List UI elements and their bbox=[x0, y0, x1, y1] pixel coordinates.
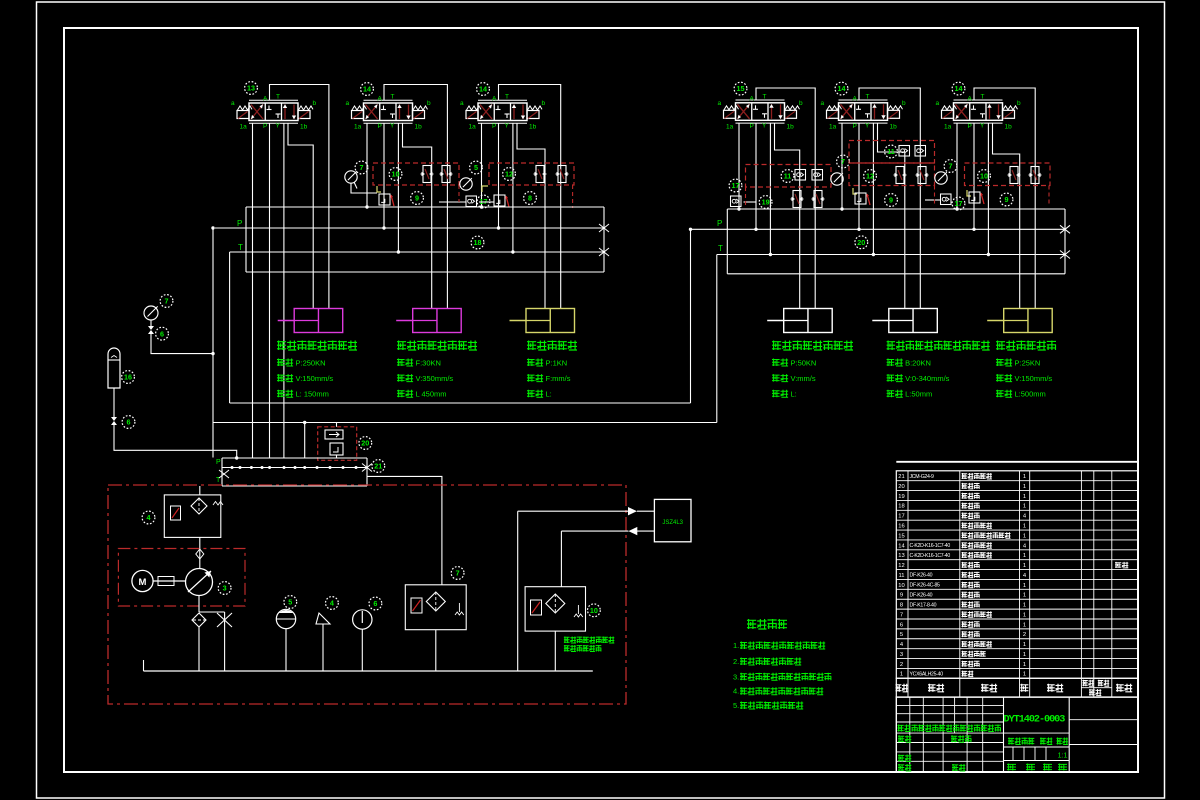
riser right P down bbox=[690, 229, 692, 403]
balloon callout 10 bbox=[588, 604, 601, 617]
balloon callout 15 bbox=[734, 82, 747, 95]
balloon callout 5 bbox=[470, 161, 483, 174]
cylinder caption row bbox=[996, 374, 1012, 382]
svg-text:P:50KN: P:50KN bbox=[791, 359, 817, 368]
balloon callout 14 bbox=[835, 82, 848, 95]
svg-text:11: 11 bbox=[898, 573, 904, 579]
svg-text:Y: Y bbox=[505, 123, 510, 130]
svg-text:A: A bbox=[263, 96, 268, 103]
solenoid directional valve 15 bbox=[718, 93, 804, 130]
wire pair right bbox=[925, 199, 941, 201]
svg-text:JSZ4L3: JSZ4L3 bbox=[662, 520, 683, 526]
svg-text:V:mm/s: V:mm/s bbox=[791, 374, 816, 383]
sheet row bbox=[1007, 764, 1016, 771]
left bus end connector bbox=[603, 207, 605, 272]
title block bbox=[896, 697, 1138, 772]
wire loop valve 3 A-port to cylinder bbox=[499, 85, 561, 309]
svg-text:V:150mm/s: V:150mm/s bbox=[296, 374, 334, 383]
svg-text:4: 4 bbox=[147, 513, 151, 522]
svg-text:1a: 1a bbox=[354, 124, 362, 131]
svg-text:Y: Y bbox=[980, 122, 985, 129]
svg-text:1a: 1a bbox=[240, 124, 248, 131]
flow manifold block 12 right bbox=[849, 163, 935, 186]
left bus line T bbox=[230, 251, 604, 253]
svg-text:P:1KN: P:1KN bbox=[546, 359, 568, 368]
balloon callout 12 bbox=[503, 168, 516, 181]
svg-text:11: 11 bbox=[887, 147, 895, 156]
svg-text:L:50mm: L:50mm bbox=[905, 390, 932, 399]
svg-text:a: a bbox=[346, 100, 350, 107]
pipeline break mark bbox=[1060, 251, 1070, 259]
svg-text:1a: 1a bbox=[944, 123, 952, 130]
svg-text:2: 2 bbox=[1023, 632, 1026, 638]
svg-text:10: 10 bbox=[590, 606, 598, 615]
svg-text:11: 11 bbox=[784, 172, 792, 181]
svg-text:3: 3 bbox=[900, 652, 903, 658]
right bus end connector bbox=[1064, 209, 1066, 274]
svg-text:L:: L: bbox=[791, 390, 797, 399]
solenoid directional valve 14 bbox=[936, 93, 1022, 130]
return filter unit 2 bbox=[525, 587, 585, 631]
balloon callout 4 bbox=[142, 511, 155, 524]
svg-text:V:0-340mm/s: V:0-340mm/s bbox=[905, 374, 950, 383]
svg-text:a: a bbox=[936, 100, 940, 107]
svg-text:Y: Y bbox=[390, 123, 395, 130]
revision header green text bbox=[898, 725, 1001, 732]
cylinder caption row bbox=[996, 390, 1012, 398]
svg-text:1: 1 bbox=[900, 672, 903, 678]
balloon callout 17 bbox=[729, 179, 742, 192]
balloon callout 19 bbox=[759, 196, 772, 209]
wire valve 6 B-port to cylinder bbox=[993, 123, 1020, 308]
svg-text:1a: 1a bbox=[726, 123, 734, 130]
svg-text:T: T bbox=[238, 243, 243, 252]
svg-text:1: 1 bbox=[1023, 474, 1026, 480]
wire valve 2 ports to bus bbox=[366, 123, 368, 207]
svg-text:1: 1 bbox=[1023, 484, 1026, 490]
wire gauge to block bbox=[351, 184, 377, 194]
pressure gauge left bbox=[144, 306, 158, 320]
balloon callout 6 bbox=[369, 597, 382, 610]
svg-text:1: 1 bbox=[1023, 583, 1026, 589]
cylinder 4 work clamp bbox=[784, 309, 833, 333]
variable pump bbox=[186, 569, 213, 596]
svg-text:L:: L: bbox=[546, 390, 552, 399]
svg-text:3: 3 bbox=[223, 584, 227, 593]
cylinder caption row bbox=[527, 374, 543, 382]
svg-text:L:500mm: L:500mm bbox=[1015, 390, 1046, 399]
parts header row bbox=[896, 678, 1138, 697]
svg-text:a: a bbox=[460, 100, 464, 107]
svg-text:T: T bbox=[981, 93, 985, 100]
svg-text:8: 8 bbox=[528, 194, 532, 203]
svg-text:1b: 1b bbox=[787, 123, 795, 130]
wire loop valve 1 A-port to cylinder bbox=[270, 85, 329, 309]
pilot relief valve block 20 bbox=[318, 427, 357, 461]
svg-text:JCM-G24-9: JCM-G24-9 bbox=[910, 474, 935, 480]
svg-text:20: 20 bbox=[857, 238, 865, 247]
cylinder caption title bbox=[887, 341, 990, 351]
svg-text:1a: 1a bbox=[829, 123, 837, 130]
svg-text:1b: 1b bbox=[890, 123, 898, 130]
wire valve 4 ports to bus bbox=[738, 123, 740, 209]
svg-text:7: 7 bbox=[949, 162, 953, 171]
svg-text:A: A bbox=[750, 95, 755, 102]
cross line 2 bbox=[213, 422, 717, 424]
svg-text:2: 2 bbox=[900, 662, 903, 668]
check manifold block 11 upper bbox=[849, 141, 935, 164]
svg-text:DYT1402-0003: DYT1402-0003 bbox=[1004, 715, 1066, 726]
right bus line P bbox=[691, 228, 1066, 230]
svg-text:5: 5 bbox=[474, 163, 478, 172]
balloon callout 7 bbox=[837, 155, 850, 168]
cylinder caption title bbox=[277, 341, 357, 351]
balloon callout 10 bbox=[978, 170, 991, 183]
svg-text:F:30KN: F:30KN bbox=[416, 359, 441, 368]
svg-text:A: A bbox=[492, 96, 497, 103]
svg-text:A: A bbox=[968, 95, 973, 102]
wire valve 5 ports to bus bbox=[841, 123, 843, 209]
svg-text:L 450mm: L 450mm bbox=[416, 390, 447, 399]
right bus line 4 bbox=[727, 273, 1065, 275]
svg-text:Y: Y bbox=[276, 123, 281, 130]
balloon callout 9 bbox=[885, 194, 898, 207]
svg-text:P:250KN: P:250KN bbox=[296, 359, 326, 368]
svg-text:19: 19 bbox=[762, 198, 770, 207]
svg-text:b: b bbox=[799, 100, 803, 107]
cylinder 3 die change (yellow) bbox=[526, 309, 575, 333]
cylinder caption title bbox=[527, 341, 577, 351]
cylinder 6 table feed (yellow) bbox=[1004, 309, 1052, 333]
terminal box JSZ4L3 bbox=[654, 499, 691, 541]
svg-text:T: T bbox=[391, 94, 395, 101]
wire valve 3 ports to bus bbox=[481, 123, 483, 207]
pipeline break mark bbox=[599, 248, 609, 256]
bus left end verticals bbox=[245, 207, 247, 272]
svg-text:15: 15 bbox=[737, 84, 745, 93]
svg-text:L: 150mm: L: 150mm bbox=[296, 390, 329, 399]
svg-text:6: 6 bbox=[900, 622, 903, 628]
pipeline break mark bbox=[599, 224, 609, 232]
solenoid directional valve 14 bbox=[821, 93, 907, 130]
header labels bbox=[896, 684, 908, 692]
svg-text:20: 20 bbox=[898, 484, 904, 490]
svg-text:21: 21 bbox=[898, 474, 904, 480]
svg-text:1b: 1b bbox=[300, 124, 308, 131]
pressure filter unit 4 bbox=[164, 495, 221, 538]
right bus line 1 bbox=[727, 208, 1065, 210]
flow manifold block 10 right bbox=[965, 163, 1051, 186]
svg-text:P:25KN: P:25KN bbox=[1015, 359, 1041, 368]
solenoid directional valve 14 bbox=[346, 94, 432, 131]
svg-text:1a: 1a bbox=[469, 124, 477, 131]
wire valve 2 B-port to cylinder bbox=[403, 123, 432, 308]
svg-text:A: A bbox=[378, 96, 383, 103]
parts list table bbox=[896, 461, 1138, 463]
accumulator bbox=[108, 348, 120, 388]
svg-text:4.: 4. bbox=[733, 687, 739, 696]
balloon callout 17 bbox=[952, 197, 965, 210]
svg-text:1: 1 bbox=[1023, 563, 1026, 569]
svg-text:P: P bbox=[263, 123, 267, 130]
risers to manifold bbox=[304, 423, 306, 458]
cylinder 2 positioning (magenta) bbox=[413, 309, 462, 333]
svg-text:a: a bbox=[718, 100, 722, 107]
flow control manifold block 12 bbox=[489, 163, 574, 185]
svg-text:1: 1 bbox=[1023, 603, 1026, 609]
wire valve 3 B-port to cylinder bbox=[517, 123, 545, 308]
svg-text:C-K2D-K16-1C7-40: C-K2D-K16-1C7-40 bbox=[910, 543, 951, 549]
pump suction branch bbox=[198, 596, 200, 613]
air breather bbox=[316, 613, 330, 624]
svg-text:5.: 5. bbox=[733, 701, 739, 710]
solenoid directional valve 13 bbox=[231, 94, 317, 131]
svg-text:b: b bbox=[902, 100, 906, 107]
shutoff valve under gauge bbox=[150, 320, 152, 326]
balloon callout 7 bbox=[160, 295, 173, 308]
balloon callout 14 bbox=[952, 82, 965, 95]
svg-text:1b: 1b bbox=[1005, 123, 1013, 130]
svg-text:T: T bbox=[276, 94, 280, 101]
svg-text:19: 19 bbox=[898, 494, 904, 500]
balloon callout 20 bbox=[359, 437, 372, 450]
svg-text:1: 1 bbox=[1023, 672, 1026, 678]
balloon callout 7 bbox=[355, 161, 368, 174]
balloon callout 6 bbox=[122, 416, 135, 429]
balloon callout 21 bbox=[372, 460, 385, 473]
cylinder caption title bbox=[772, 341, 853, 351]
svg-text:1: 1 bbox=[1023, 494, 1026, 500]
manifold block A with 11 bbox=[746, 165, 832, 188]
title block labels bbox=[898, 735, 911, 742]
technical requirements title bbox=[747, 619, 787, 629]
svg-text:9: 9 bbox=[889, 196, 893, 205]
pressure gauge under valve 3 bbox=[460, 178, 472, 190]
motor-pump group box bbox=[118, 549, 245, 607]
cylinder caption title bbox=[996, 341, 1056, 351]
svg-text:a: a bbox=[821, 100, 825, 107]
balloon callout 6 bbox=[156, 327, 169, 340]
svg-text:4: 4 bbox=[330, 599, 334, 608]
svg-text:6: 6 bbox=[160, 329, 164, 338]
svg-text:1.: 1. bbox=[733, 641, 739, 650]
cylinder caption row bbox=[772, 359, 788, 367]
svg-text:14: 14 bbox=[363, 85, 371, 94]
svg-text:P: P bbox=[237, 219, 242, 228]
svg-text:F:mm/s: F:mm/s bbox=[546, 374, 571, 383]
svg-text:2.: 2. bbox=[733, 657, 739, 666]
svg-text:3.: 3. bbox=[733, 672, 739, 681]
cylinder 1 work (magenta) bbox=[294, 309, 343, 333]
hydraulic power unit enclosure bbox=[108, 485, 626, 704]
svg-text:1b: 1b bbox=[529, 124, 537, 131]
balloon callout 4 bbox=[326, 597, 339, 610]
right column cells bbox=[1069, 719, 1138, 721]
cylinder caption row bbox=[996, 359, 1012, 367]
pipeline break mark bbox=[219, 470, 229, 478]
stage mark row bbox=[1004, 732, 1070, 734]
svg-text:15: 15 bbox=[898, 533, 904, 539]
svg-text:V:350mm/s: V:350mm/s bbox=[416, 374, 454, 383]
wire loop valve 4 A-port to cylinder bbox=[756, 88, 815, 309]
cylinder 5 feed clamp bbox=[889, 309, 938, 333]
svg-text:P: P bbox=[750, 123, 754, 130]
cylinder caption row bbox=[527, 390, 543, 398]
balloon callout 11 bbox=[885, 145, 898, 158]
left bus line P bbox=[215, 227, 604, 229]
svg-text:1: 1 bbox=[1023, 524, 1026, 530]
svg-text:V:150mm/s: V:150mm/s bbox=[1015, 374, 1053, 383]
svg-text:1: 1 bbox=[1023, 504, 1026, 510]
right bus line T bbox=[717, 254, 1065, 256]
svg-text:13: 13 bbox=[247, 84, 255, 93]
cylinder caption row bbox=[887, 359, 903, 367]
balloon callout 7 bbox=[944, 160, 957, 173]
note text near filter 2 bbox=[564, 637, 614, 644]
pressure gauge under valve 2 bbox=[345, 171, 357, 183]
balloon callout 16 bbox=[122, 371, 135, 384]
wire valve 1 B-port to cylinder bbox=[288, 123, 313, 308]
cylinder caption row bbox=[887, 390, 903, 398]
svg-text:P: P bbox=[492, 123, 496, 130]
balloon callout 14 bbox=[361, 83, 374, 96]
manifold T to return filter bbox=[367, 476, 442, 584]
balloon callout 5 bbox=[284, 596, 297, 609]
svg-text:DF-K17-8-40: DF-K17-8-40 bbox=[910, 602, 937, 608]
cylinder caption row bbox=[397, 390, 413, 398]
check valve pair under block 12 bbox=[466, 196, 477, 207]
svg-text:Y: Y bbox=[762, 122, 767, 129]
svg-text:DF-K26-40: DF-K26-40 bbox=[910, 592, 933, 598]
pipeline break mark bbox=[362, 464, 372, 472]
svg-text:b: b bbox=[427, 100, 431, 107]
svg-text:1: 1 bbox=[1023, 652, 1026, 658]
cylinder caption row bbox=[772, 374, 788, 382]
svg-text:9: 9 bbox=[900, 593, 903, 599]
balloon callout 3 bbox=[218, 582, 231, 595]
cylinder caption row bbox=[887, 374, 903, 382]
pressure gauge right 2 bbox=[935, 172, 947, 184]
shutoff valve under accumulator bbox=[113, 388, 115, 417]
coupling bbox=[153, 580, 185, 582]
svg-text:5: 5 bbox=[900, 632, 903, 638]
cylinder caption row bbox=[527, 359, 543, 367]
pressure gauge mid right bbox=[831, 173, 843, 185]
svg-text:17: 17 bbox=[955, 199, 963, 208]
pump outlet manifold bbox=[222, 457, 367, 459]
wire accumulator to manifold bbox=[114, 425, 237, 458]
bypass relief bbox=[224, 612, 226, 671]
svg-text:1: 1 bbox=[1023, 622, 1026, 628]
svg-text:6: 6 bbox=[127, 418, 131, 427]
balloon callout 9 bbox=[411, 192, 424, 205]
svg-text:A: A bbox=[853, 95, 858, 102]
svg-text:1:1: 1:1 bbox=[1058, 753, 1068, 760]
svg-text:6: 6 bbox=[373, 599, 377, 608]
wire valve 6 ports to bus bbox=[956, 123, 958, 209]
svg-text:9: 9 bbox=[1005, 195, 1009, 204]
svg-text:14: 14 bbox=[838, 84, 846, 93]
svg-text:10: 10 bbox=[898, 583, 904, 589]
balloon callout 18 bbox=[471, 236, 484, 249]
svg-text:DF-K26-4C-85: DF-K26-4C-85 bbox=[910, 583, 941, 589]
left bus line 1 bbox=[246, 206, 604, 208]
svg-text:T: T bbox=[216, 477, 221, 484]
wire valve 5 B-port to cylinder bbox=[878, 123, 905, 308]
wire loop valve 5 A-port to cylinder bbox=[859, 88, 920, 309]
wires to terminal box bbox=[517, 511, 519, 671]
wire loop valve 6 A-port to cylinder bbox=[974, 88, 1035, 309]
wire gauge branch bbox=[151, 334, 213, 354]
electric motor bbox=[132, 570, 153, 591]
wire check pair bbox=[439, 201, 466, 203]
svg-text:1: 1 bbox=[1023, 612, 1026, 618]
balloon callout 11 bbox=[781, 170, 794, 183]
svg-text:14: 14 bbox=[898, 543, 905, 549]
svg-text:7: 7 bbox=[165, 297, 169, 306]
svg-text:1: 1 bbox=[1023, 533, 1026, 539]
svg-text:10: 10 bbox=[392, 170, 400, 179]
svg-text:12: 12 bbox=[866, 172, 874, 181]
svg-text:12: 12 bbox=[505, 170, 513, 179]
return filter unit 1 bbox=[405, 585, 466, 630]
svg-text:14: 14 bbox=[479, 85, 487, 94]
balloon callout 13 bbox=[245, 82, 258, 95]
wire loop valve 2 A-port to cylinder bbox=[384, 85, 447, 309]
thermometer bbox=[353, 610, 372, 629]
wire valve 4 B-port to cylinder bbox=[775, 123, 800, 308]
svg-text:C-K2D-K16-1C7-40: C-K2D-K16-1C7-40 bbox=[910, 553, 951, 559]
cylinder caption row bbox=[772, 390, 788, 398]
svg-text:T: T bbox=[866, 93, 870, 100]
svg-text:T: T bbox=[718, 244, 723, 253]
svg-text:18: 18 bbox=[474, 238, 482, 247]
reducing valve below bbox=[853, 188, 857, 194]
svg-text:T: T bbox=[763, 93, 767, 100]
flow control manifold block 10 bbox=[373, 163, 459, 185]
wire manifold to filter to pump bbox=[199, 486, 201, 495]
svg-text:7: 7 bbox=[900, 612, 903, 618]
svg-text:7: 7 bbox=[360, 163, 364, 172]
svg-text:B:20KN: B:20KN bbox=[905, 359, 931, 368]
level gauge bbox=[276, 609, 295, 628]
svg-text:7: 7 bbox=[456, 569, 460, 578]
svg-text:DF-K26-40: DF-K26-40 bbox=[910, 573, 933, 579]
cylinder caption row bbox=[397, 359, 413, 367]
red dashed stubs bbox=[745, 187, 747, 208]
svg-text:M: M bbox=[139, 577, 147, 588]
solenoid directional valve 14 bbox=[460, 94, 546, 131]
svg-text:1: 1 bbox=[1023, 553, 1026, 559]
svg-text:Y: Y bbox=[865, 122, 870, 129]
svg-text:7: 7 bbox=[841, 157, 845, 166]
svg-text:16: 16 bbox=[124, 373, 132, 382]
svg-text:1: 1 bbox=[1023, 642, 1026, 648]
cylinder caption title bbox=[397, 341, 477, 351]
riser P left bbox=[212, 228, 214, 458]
balloon callout 9 bbox=[1000, 193, 1013, 206]
riser T left to cross line bbox=[230, 402, 691, 404]
balloon callout 8 bbox=[524, 192, 537, 205]
cylinder caption row bbox=[277, 390, 293, 398]
balloon callout 7 bbox=[451, 567, 464, 580]
svg-text:5: 5 bbox=[288, 598, 292, 607]
balloon callout 10 bbox=[389, 168, 402, 181]
cylinder caption row bbox=[277, 374, 293, 382]
cylinder caption row bbox=[397, 374, 413, 382]
svg-text:10: 10 bbox=[980, 172, 988, 181]
cylinder caption row bbox=[277, 359, 293, 367]
